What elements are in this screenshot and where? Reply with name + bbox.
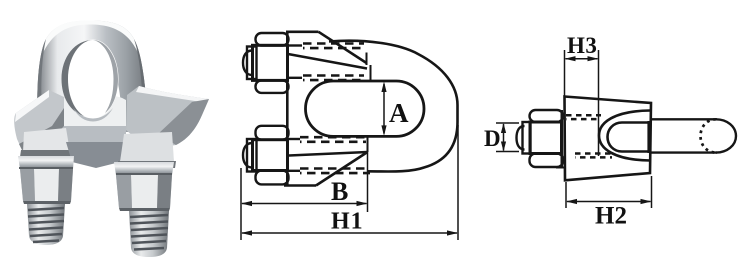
svg-text:H3: H3 <box>567 33 597 58</box>
saddle trapezoid (right view) <box>565 97 652 181</box>
hidden U-bolt shank dashed lines (bottom bolt) <box>300 136 366 139</box>
thread zigzag (bottom row) <box>575 152 612 155</box>
top chamfer band (right view) <box>530 110 564 122</box>
saddle top diagonal <box>319 32 367 63</box>
nut right edge vertical (right view) <box>560 110 563 167</box>
B right extension line <box>367 152 369 212</box>
U-bolt bend outer curve (right view) <box>599 111 650 161</box>
nut body bottom <box>253 140 288 171</box>
right washer (photo) <box>114 162 174 175</box>
saddle right ear/wing plate (photo) <box>126 86 209 149</box>
B dimension line <box>242 203 367 205</box>
washer (right view) <box>523 122 531 154</box>
saddle right edge upper vertical <box>370 65 372 81</box>
U-bolt (photo) <box>37 21 149 133</box>
hidden U-bolt shank dashed lines (top bolt) <box>300 44 370 174</box>
top nut assembly (middle drawing) <box>243 33 289 93</box>
saddle bottom shallow edge <box>289 152 368 156</box>
saddle right edge lower vertical <box>367 137 369 152</box>
bolt cap (right view) <box>517 126 525 150</box>
dimension B <box>241 152 368 240</box>
left washer (photo) <box>18 156 74 169</box>
svg-text:H2: H2 <box>595 203 627 230</box>
dimension H3 <box>565 50 599 156</box>
dimension H2 <box>566 176 652 208</box>
left threaded stud (photo) <box>27 204 65 245</box>
svg-text:D: D <box>484 126 501 151</box>
H3 left extension <box>564 50 566 97</box>
H3 dimension line <box>566 58 598 60</box>
H2 left extension <box>565 182 567 208</box>
nut assembly (right view) <box>517 110 566 168</box>
saddle left boss (photo) <box>23 128 70 152</box>
H1 right extension line <box>457 125 459 240</box>
H2 right extension <box>651 176 653 208</box>
rope end cap <box>716 119 736 152</box>
dimension A arrow <box>381 82 386 136</box>
U-bolt outer D outline <box>329 41 458 172</box>
svg-text:B: B <box>331 177 348 206</box>
top bolt solid stubs <box>287 46 302 171</box>
right threaded stud (photo) <box>129 211 169 257</box>
chamfer-to-saddle link line <box>556 167 565 169</box>
nut bottom chamfer band (bottom nut) <box>256 171 289 185</box>
H3 right extension <box>598 50 600 156</box>
svg-text:A: A <box>389 98 409 128</box>
nut top chamfer band (bottom nut) <box>256 126 289 140</box>
nut top chamfer band <box>256 33 289 46</box>
bottom chamfer band (right view) <box>530 154 564 168</box>
nut body (right view) <box>530 122 562 154</box>
saddle center web (photo) <box>60 96 126 145</box>
bottom nut assembly (middle drawing) <box>243 126 289 185</box>
washer top <box>247 47 257 80</box>
bolt cap top <box>243 51 252 76</box>
thread zigzag (top row) <box>566 115 612 157</box>
rope cylinder lines <box>651 119 736 152</box>
saddle right boss (photo) <box>120 132 174 162</box>
dimension H1 <box>241 125 458 240</box>
H2 dimension line <box>567 201 651 203</box>
saddle mid diagonal <box>288 54 367 69</box>
left hex nut (photo) <box>20 169 73 201</box>
saddle left face vertical line <box>286 33 289 185</box>
nut body top <box>253 45 288 80</box>
U-bolt bend inner stadium (right view) <box>608 123 649 152</box>
saddle bridge shadow (photo) <box>66 142 124 168</box>
saddle bottom horizontal edge <box>284 184 316 187</box>
inner stadium right closure <box>647 121 649 153</box>
right hex nut (photo) <box>116 175 172 208</box>
saddle top horizontal edge <box>286 30 319 33</box>
nut bottom chamfer band <box>256 80 289 93</box>
bolt cap bottom <box>243 143 252 168</box>
saddle left ear/wing plate (photo) <box>14 90 64 150</box>
U-bolt hole <box>68 40 119 119</box>
H1 dimension line <box>242 232 457 234</box>
washer bottom <box>247 139 257 172</box>
dimension D <box>496 123 519 152</box>
saddle right-edge tick (top) <box>366 53 368 66</box>
left extension line (shared B/H1) <box>240 168 242 240</box>
saddle bottom diagonal <box>316 152 368 186</box>
rope end hidden ellipse (dotted) <box>701 119 717 152</box>
svg-text:H1: H1 <box>331 209 364 235</box>
inner stadium hole A <box>306 81 425 136</box>
